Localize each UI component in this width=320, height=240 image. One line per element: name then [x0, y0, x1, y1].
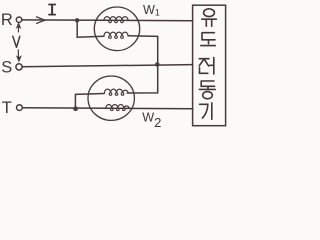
- hangul 기: [200, 103, 212, 119]
- wattmeter W2 voltage coil: [105, 89, 129, 93]
- wattmeter W2 circle: [88, 76, 134, 120]
- terminal T: [17, 105, 23, 111]
- terminal S: [16, 64, 22, 70]
- svg-text:W2: W2: [142, 111, 161, 131]
- hangul 도: [201, 33, 216, 46]
- svg-text:T: T: [2, 99, 12, 117]
- wire R line: [22, 19, 193, 22]
- hangul 동: [199, 81, 215, 89]
- hangul 전: [199, 58, 214, 75]
- svg-text:S: S: [1, 59, 12, 77]
- terminal R: [16, 17, 21, 22]
- node junction on T line: [73, 106, 78, 111]
- svg-text:W1: W1: [143, 3, 160, 17]
- wattmeter W1 current coil: [104, 17, 128, 21]
- arrow V up (toward R): [17, 25, 19, 32]
- hangul 유: [204, 9, 215, 17]
- node junction on S line: [155, 62, 160, 67]
- wattmeter W1 voltage coil: [104, 32, 128, 36]
- arrow V down (toward S): [17, 50, 20, 60]
- wire W1 voltage loop left (junction to coil): [77, 20, 104, 37]
- node junction on R line: [75, 18, 79, 22]
- wire W1 voltage loop right (coil to S junction, down to W2): [127, 36, 158, 93]
- wattmeter W2 current coil: [106, 104, 130, 108]
- svg-text:R: R: [1, 11, 13, 29]
- label V (drawn): [13, 36, 20, 47]
- wire S line: [22, 65, 193, 67]
- wattmeter W1 circle: [94, 7, 139, 51]
- label I (serif capital drawn): [49, 5, 55, 15]
- motor box (induction motor): [193, 5, 226, 126]
- motor label hangul (drawn): [199, 9, 216, 119]
- wire W2 voltage loop left (T junction up to coil): [75, 94, 104, 109]
- arrow I on R line: [37, 17, 45, 24]
- wire T line: [22, 108, 192, 109]
